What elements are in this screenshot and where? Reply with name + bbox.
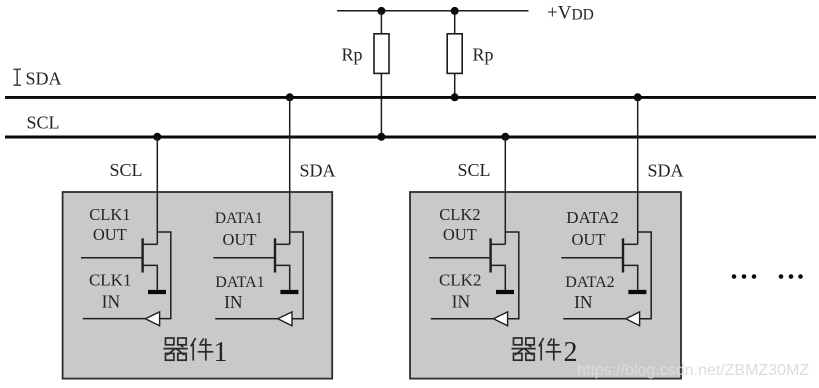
ellipsis dots group 1 bbox=[732, 274, 757, 279]
transistor Q4 drain stub bbox=[623, 243, 638, 245]
transistor cell DATA1 bbox=[213, 97, 303, 325]
wire: CLK2 OUT gate lead bbox=[429, 257, 491, 259]
transistor Q4 gate/channel bar bbox=[622, 238, 624, 272]
SCL bus line bbox=[5, 136, 816, 139]
svg-text:SDA: SDA bbox=[299, 161, 335, 181]
node on VDD rail at R1 bbox=[377, 7, 385, 15]
wire: branch from DATA1 pin node to input buffer B2 bbox=[290, 232, 304, 319]
resistor Rp (left, pull-up on SCL) bbox=[374, 34, 389, 74]
wire: DATA2 OUT gate lead bbox=[561, 257, 623, 259]
transistor Q1 source stub bbox=[143, 265, 158, 290]
件 bbox=[191, 338, 213, 361]
transistor Q3 source stub bbox=[491, 265, 506, 290]
junction CLK1-SCL bbox=[153, 133, 161, 141]
text cursor I-beam bbox=[14, 69, 21, 85]
svg-text:DATA2: DATA2 bbox=[565, 274, 614, 291]
transistor Q2 gate/channel bar bbox=[274, 238, 276, 272]
wire: DATA2 IN lead bbox=[563, 318, 626, 320]
junction CLK2-SCL bbox=[501, 133, 509, 141]
wire: DATA2 bus drop to drain of Q4 bbox=[637, 97, 639, 244]
junction R2-SDA bbox=[451, 93, 459, 101]
wire: gate lead bbox=[81, 257, 143, 259]
svg-text:OUT: OUT bbox=[223, 230, 257, 249]
svg-text:OUT: OUT bbox=[93, 225, 127, 244]
svg-text:DATA1: DATA1 bbox=[215, 274, 264, 291]
transistor Q3 gate/channel bar bbox=[489, 238, 491, 272]
wire: branch from CLK2 pin node to input buffer B3 bbox=[505, 232, 519, 319]
device 1 box 器件1 bbox=[63, 192, 333, 379]
junction DATA2-SDA bbox=[634, 93, 642, 101]
svg-text:1: 1 bbox=[214, 337, 228, 368]
input buffer B3 triangle bbox=[493, 312, 507, 326]
svg-text:SDA: SDA bbox=[26, 68, 62, 88]
VDD rail bbox=[337, 10, 529, 12]
wire: branch to input buffer loop bbox=[157, 232, 171, 319]
svg-text:IN: IN bbox=[224, 292, 243, 312]
ellipsis dots group 2 bbox=[779, 274, 803, 279]
input buffer B4 triangle bbox=[626, 312, 640, 326]
svg-text:Rp: Rp bbox=[473, 44, 494, 64]
ground bar bbox=[148, 290, 166, 294]
svg-text:Rp: Rp bbox=[342, 44, 363, 64]
svg-text:2: 2 bbox=[564, 337, 578, 368]
svg-text:OUT: OUT bbox=[443, 225, 477, 244]
wire: CLK2 bus drop to drain of Q3 bbox=[504, 137, 506, 244]
transistor Q1 gate/channel bar bbox=[141, 238, 143, 272]
transistor cell DATA2 bbox=[561, 97, 651, 325]
ground bar (Q3 source) bbox=[496, 290, 514, 294]
wire VDD to R2 bbox=[454, 11, 456, 34]
junction DATA1-SDA bbox=[286, 93, 294, 101]
wire: IN lead bbox=[83, 318, 146, 320]
resistor Rp (right, pull-up on SDA) bbox=[447, 34, 462, 74]
svg-text:SCL: SCL bbox=[109, 160, 142, 180]
svg-text:CLK2: CLK2 bbox=[439, 205, 480, 224]
svg-text:IN: IN bbox=[102, 292, 121, 312]
svg-text:CLK1: CLK1 bbox=[89, 205, 130, 224]
wire R1 to SCL bus bbox=[380, 73, 382, 136]
wire VDD to R1 bbox=[380, 11, 382, 34]
svg-text:OUT: OUT bbox=[572, 230, 606, 249]
wire: bus drop to drain bbox=[156, 137, 158, 245]
svg-text:CLK1: CLK1 bbox=[89, 271, 132, 290]
node on VDD rail at R2 bbox=[451, 7, 459, 15]
ground bar (Q4 source) bbox=[628, 290, 646, 294]
device 2 box 器件2 bbox=[410, 192, 681, 379]
wire R2 to SDA bus bbox=[454, 73, 456, 97]
device title 器件2 bbox=[512, 337, 578, 368]
transistor Q2 drain stub bbox=[275, 243, 290, 245]
wire: CLK2 IN lead bbox=[431, 318, 494, 320]
wire: DATA1 IN lead bbox=[215, 318, 278, 320]
svg-text:DATA2: DATA2 bbox=[566, 208, 618, 227]
svg-text:DATA1: DATA1 bbox=[215, 210, 263, 227]
器 bbox=[164, 338, 188, 360]
device title 器件1 (hand-drawn CJK glyphs) bbox=[164, 337, 228, 368]
svg-text:IN: IN bbox=[574, 292, 593, 312]
wire: branch from DATA2 pin node to input buffer B4 bbox=[638, 232, 652, 319]
junction R1-SCL bbox=[377, 133, 385, 141]
wire: DATA1 bus drop to drain of Q2 bbox=[289, 97, 291, 244]
svg-text:IN: IN bbox=[452, 292, 471, 312]
SDA bus line bbox=[5, 96, 816, 99]
svg-text:CLK2: CLK2 bbox=[439, 271, 482, 290]
svg-text:SCL: SCL bbox=[457, 160, 490, 180]
svg-text:SDA: SDA bbox=[647, 161, 683, 181]
svg-text:+VDD: +VDD bbox=[547, 3, 594, 24]
svg-text:SCL: SCL bbox=[27, 113, 60, 133]
transistor Q3 drain stub bbox=[491, 243, 506, 245]
wire: DATA1 OUT gate lead bbox=[213, 257, 275, 259]
svg-text:https://blog.csdn.net/ZBMZ30MZ: https://blog.csdn.net/ZBMZ30MZ bbox=[577, 362, 809, 379]
ground bar (Q2 source) bbox=[280, 290, 298, 294]
transistor Q1 drain stub bbox=[143, 243, 158, 245]
transistor cell CLK2 bbox=[429, 137, 519, 326]
input buffer triangle bbox=[145, 312, 159, 326]
transistor Q2 source stub bbox=[275, 265, 290, 290]
transistor Q4 source stub bbox=[623, 265, 638, 290]
transistor cell CLK1 (drain wire, open-drain FET Q1, ground, input buffer) bbox=[81, 137, 171, 326]
input buffer B2 triangle bbox=[278, 312, 292, 326]
